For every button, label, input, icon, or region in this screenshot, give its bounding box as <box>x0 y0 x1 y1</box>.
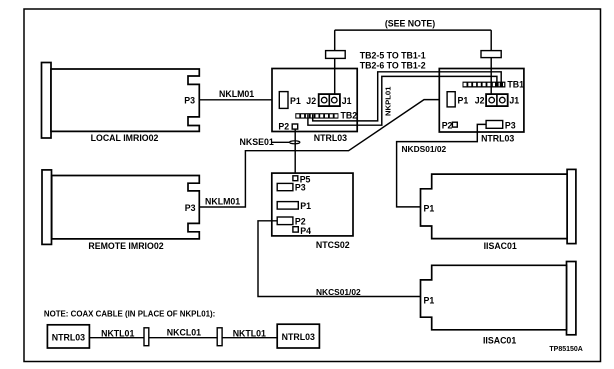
module REMOTE IMRIO02 <box>42 170 199 251</box>
connector P2 (left NTRL03) <box>278 121 297 131</box>
wire NKPL01 run B (TB2 to TB1-2) <box>308 76 497 125</box>
svg-text:J1: J1 <box>509 96 519 106</box>
cable connector (left, on NKPL01 drop) <box>326 51 346 59</box>
cable connector (right, on NKPL01 drop) <box>481 51 501 58</box>
module NTRL03 (note, right) <box>277 324 319 348</box>
jumper block J2/J1 (right NTRL03) <box>475 94 520 106</box>
module IISAC01 (top) <box>421 169 576 251</box>
svg-text:NTRL03: NTRL03 <box>314 133 347 143</box>
svg-text:TB2-6 TO TB1-2: TB2-6 TO TB1-2 <box>360 60 426 70</box>
svg-text:NKPL01: NKPL01 <box>384 86 393 116</box>
svg-text:P3: P3 <box>505 120 516 130</box>
svg-text:P1: P1 <box>290 96 301 106</box>
wire top loop (SEE NOTE) <box>335 18 492 94</box>
wire note chain <box>89 337 277 339</box>
svg-text:NTRL03: NTRL03 <box>282 332 315 342</box>
connector P1 (right NTRL03) <box>447 92 468 107</box>
svg-text:LOCAL IMRIO02: LOCAL IMRIO02 <box>91 133 159 143</box>
svg-text:TB2: TB2 <box>341 110 358 120</box>
svg-text:J1: J1 <box>342 96 352 106</box>
connector P2 (right NTRL03) <box>442 120 458 130</box>
jumper block J2/J1 (left NTRL03) <box>306 94 351 106</box>
svg-text:TB1: TB1 <box>507 80 524 90</box>
svg-text:P2: P2 <box>442 120 453 130</box>
connector P2 (NTCS02) <box>277 216 306 226</box>
wire NKLM01 (local) <box>199 89 279 100</box>
svg-text:P3: P3 <box>185 203 196 213</box>
svg-text:IISAC01: IISAC01 <box>484 241 517 251</box>
svg-text:P3: P3 <box>184 95 195 105</box>
svg-text:P4: P4 <box>300 226 311 236</box>
svg-text:IISAC01: IISAC01 <box>483 335 516 345</box>
module LOCAL IMRIO02 <box>42 63 200 144</box>
svg-text:P1: P1 <box>300 201 311 211</box>
svg-text:NOTE: COAX CABLE (IN PLACE OF: NOTE: COAX CABLE (IN PLACE OF NKPL01): <box>44 309 215 318</box>
module NTRL03 (left) <box>272 69 357 144</box>
svg-text:REMOTE IMRIO02: REMOTE IMRIO02 <box>88 241 163 251</box>
connector P1 (left NTRL03) <box>279 92 301 109</box>
wire NKPL01 run A (TB2 to TB1-1) <box>313 72 502 121</box>
svg-text:J2: J2 <box>475 96 485 106</box>
connector P4 (NTCS02) <box>293 226 311 236</box>
wire NKDS01/02 (P3 to IISAC01 P1) <box>397 124 487 206</box>
module NTRL03 (note, left) <box>47 325 89 348</box>
svg-text:P3: P3 <box>295 183 306 193</box>
svg-text:TP85150A: TP85150A <box>549 346 582 353</box>
terminal block TB2 (left NTRL03) <box>295 110 357 120</box>
svg-text:(SEE NOTE): (SEE NOTE) <box>385 18 435 28</box>
svg-text:TB2-5 TO TB1-1: TB2-5 TO TB1-1 <box>360 51 426 61</box>
connector P1 (NTCS02) <box>277 201 311 211</box>
svg-text:P1: P1 <box>424 203 435 213</box>
module NTCS02 <box>272 173 353 250</box>
module IISAC01 (bottom) <box>421 262 576 346</box>
terminal block TB1 (right NTRL03) <box>463 80 525 90</box>
svg-text:P2: P2 <box>278 121 289 131</box>
svg-text:NKCL01: NKCL01 <box>167 327 201 337</box>
svg-text:NKTL01: NKTL01 <box>101 328 134 338</box>
wire NKSE01 (P2 to P5) <box>240 129 300 176</box>
connector P3 (NTCS02) <box>277 183 306 193</box>
inline connector (note chain, left) <box>144 328 149 346</box>
svg-text:P1: P1 <box>424 295 435 305</box>
svg-text:NKLM01: NKLM01 <box>219 89 254 99</box>
svg-text:NTCS02: NTCS02 <box>316 240 350 250</box>
svg-text:P1: P1 <box>458 96 469 106</box>
svg-text:NKCS01/02: NKCS01/02 <box>316 287 361 297</box>
inline connector (note chain, right) <box>217 328 222 346</box>
svg-text:NTRL03: NTRL03 <box>52 332 85 342</box>
svg-text:J2: J2 <box>306 96 316 106</box>
connector P3 (right NTRL03) <box>486 120 516 130</box>
wire NKLM01 (remote) <box>199 100 447 207</box>
connector P5 (NTCS02) <box>293 174 311 184</box>
svg-text:NKLM01: NKLM01 <box>205 196 240 206</box>
svg-text:NTRL03: NTRL03 <box>481 134 514 144</box>
svg-text:NKDS01/02: NKDS01/02 <box>402 144 447 154</box>
wire NKCS01/02 (NTCS02 P2 to IISAC01 P1) <box>258 221 421 297</box>
module NTRL03 (right) <box>439 69 524 144</box>
svg-text:NKTL01: NKTL01 <box>233 328 266 338</box>
svg-text:NKSE01: NKSE01 <box>240 137 274 147</box>
